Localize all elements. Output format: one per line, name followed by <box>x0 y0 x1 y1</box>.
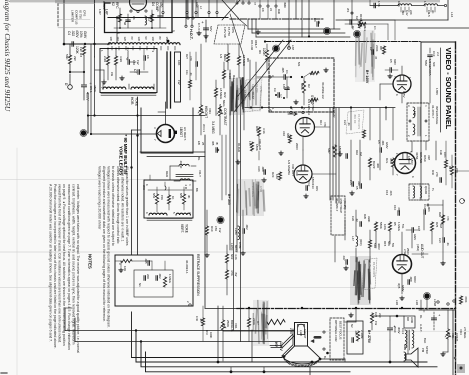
vert bundle x230-240 <box>229 70 231 250</box>
svg-text:BLK: BLK <box>423 338 427 343</box>
svg-text:L2: L2 <box>147 18 151 21</box>
IF coil group 2 <box>424 4 438 6</box>
bus y367 <box>141 342 437 367</box>
svg-text:Voltages shown were measured w: Voltages shown were measured with respec… <box>107 166 111 328</box>
svg-text:.01: .01 <box>446 242 450 246</box>
right col extra parts <box>442 200 444 260</box>
svg-text:L5K: L5K <box>214 226 218 231</box>
svg-text:K2: K2 <box>111 2 115 6</box>
svg-text:AGC: AGC <box>195 2 199 8</box>
box RD3400 <box>404 316 415 328</box>
faint fold line 2 <box>0 287 469 289</box>
res R17 L5K right edge <box>450 166 453 175</box>
smudge 1 dark <box>230 78 244 115</box>
svg-text:Production changes are incorpo: Production changes are incorporated in l… <box>53 184 57 349</box>
svg-text:10%: 10% <box>443 152 447 158</box>
svg-text:GRN: GRN <box>403 344 407 350</box>
svg-text:10%: 10% <box>79 31 83 38</box>
wire x218 drop <box>217 306 219 362</box>
wire vertical x64 <box>63 0 65 45</box>
svg-text:3K: 3K <box>187 195 191 199</box>
svg-text:250V: 250V <box>406 248 410 255</box>
long vertical x205 <box>204 135 206 308</box>
coil 2ohm <box>180 179 190 181</box>
junctions y115 <box>87 114 89 116</box>
svg-text:N54: N54 <box>152 193 156 199</box>
svg-text:.006: .006 <box>427 206 431 212</box>
svg-text:GMV: GMV <box>413 234 417 240</box>
resistor R3 120K <box>82 46 85 55</box>
hor yoke coils <box>103 87 126 89</box>
svg-text:5: 5 <box>116 32 120 34</box>
svg-text:RED: RED <box>165 171 169 177</box>
CRT neck <box>295 323 308 347</box>
svg-text:R6: R6 <box>255 188 259 192</box>
svg-text:CPS: CPS <box>83 10 87 16</box>
svg-text:2.2K: 2.2K <box>103 56 107 62</box>
svg-text:CT: CT <box>133 69 137 73</box>
svg-text:30-6024-1: 30-6024-1 <box>185 260 189 274</box>
svg-text:L8 MEG: L8 MEG <box>219 88 223 100</box>
vy cap <box>165 186 166 190</box>
left print margin line <box>16 148 18 375</box>
svg-text:2.5 MEG: 2.5 MEG <box>463 327 467 339</box>
svg-text:330: 330 <box>357 181 361 186</box>
svg-text:0.5M: 0.5M <box>238 242 242 249</box>
svg-text:10%: 10% <box>383 224 387 230</box>
parts in comp box <box>119 8 121 28</box>
hor yoke box <box>100 49 157 93</box>
svg-text:56K: 56K <box>387 241 391 246</box>
svg-text:4C56: 4C56 <box>415 152 419 160</box>
svg-text:680K: 680K <box>300 83 304 90</box>
svg-text:45V RF: 45V RF <box>353 114 357 124</box>
resistor 56K 2W <box>68 55 71 64</box>
panel bottom dash-dot border <box>237 308 456 310</box>
box around comp tube <box>105 0 173 33</box>
top right resistors <box>358 20 361 28</box>
hline y107 <box>244 107 395 109</box>
tube sync triode <box>296 118 315 137</box>
CRT wires in <box>223 330 295 332</box>
svg-text:1W: 1W <box>110 72 114 76</box>
svg-text:RETRACE SUPPRESSION: RETRACE SUPPRESSION <box>196 254 200 296</box>
svg-text:L3R: L3R <box>415 300 419 305</box>
black dot TP3 <box>324 28 329 33</box>
svg-text:50V: 50V <box>209 26 213 32</box>
svg-text:OS 140: OS 140 <box>250 40 254 51</box>
optional focus dashed box <box>330 318 344 360</box>
wire from face <box>320 358 345 360</box>
svg-text:1W: 1W <box>218 228 222 233</box>
line y28 right <box>408 27 469 29</box>
svg-text:MPO: MPO <box>234 245 238 252</box>
vertical from bus <box>116 18 118 44</box>
retrace wires <box>115 260 121 262</box>
svg-text:NOTES: NOTES <box>88 254 93 269</box>
svg-text:C40: C40 <box>195 316 199 321</box>
wire vertical x94 <box>94 0 96 57</box>
svg-text:K2: K2 <box>355 16 359 20</box>
svg-text:VR3: VR3 <box>208 108 212 114</box>
svg-text:L1JB: L1JB <box>299 330 303 336</box>
top page edge shadow <box>10 0 440 2</box>
wires contrast drop <box>221 135 223 200</box>
svg-text:150: 150 <box>132 60 136 65</box>
svg-text:3400: 3400 <box>410 317 414 323</box>
svg-text:B+ 205: B+ 205 <box>227 194 231 205</box>
junction dots mid <box>264 40 266 42</box>
svg-text:A.O.T.: A.O.T. <box>419 324 423 333</box>
SIF wires <box>401 66 403 75</box>
svg-text:C24: C24 <box>438 238 442 243</box>
strut double <box>270 334 294 348</box>
svg-text:R28: R28 <box>438 212 442 217</box>
svg-text:2.2: 2.2 <box>436 52 440 56</box>
svg-text:3.3K: 3.3K <box>262 128 266 134</box>
capacitor C4 <box>71 42 73 47</box>
svg-text:ONLY: ONLY <box>254 40 258 48</box>
svg-text:EB: EB <box>197 141 201 145</box>
svg-text:SUN/AT: SUN/AT <box>303 329 307 339</box>
vol wires <box>447 310 449 329</box>
svg-text:viewed from the front of the r: viewed from the front of the receiver ch… <box>58 184 62 343</box>
svg-text:115V RF: 115V RF <box>368 262 372 273</box>
res R19 33K <box>257 127 260 136</box>
dots y308 <box>301 307 303 309</box>
faint fold line 3 <box>0 179 145 181</box>
slanted dashed box 115V RF <box>214 25 245 44</box>
svg-text:450: 450 <box>159 2 163 8</box>
limiter dashed box <box>57 4 59 28</box>
svg-text:BEST FOCUS: BEST FOCUS <box>339 321 343 339</box>
wires w pins <box>185 0 187 25</box>
res R25 <box>430 222 433 231</box>
svg-text:VERT.: VERT. <box>180 224 184 233</box>
svg-text:QUAD: QUAD <box>424 186 428 194</box>
hline y152 <box>140 151 205 153</box>
svg-text:32-4766-?: 32-4766-? <box>431 105 435 119</box>
gnd retrace <box>120 268 122 270</box>
gnd left mid <box>103 80 105 82</box>
res 680K R2 <box>302 81 305 93</box>
wires into sync box <box>257 76 270 78</box>
svg-text:C14: C14 <box>423 204 427 210</box>
pin circles sync <box>269 76 271 78</box>
vy res 3K <box>182 194 185 204</box>
svg-text:.01: .01 <box>347 122 351 126</box>
CRT bell double edge <box>282 323 295 357</box>
svg-text:Voltages were read using a 20,: Voltages were read using a 20,000 ohms/ <box>97 166 101 229</box>
svg-text:R27: R27 <box>185 54 189 59</box>
svg-text:R35: R35 <box>363 214 367 219</box>
junction dots bus44 <box>63 43 66 46</box>
IF coil group 1 <box>398 4 412 6</box>
black dot TP4 <box>354 31 359 36</box>
tube vid out <box>294 165 312 183</box>
svg-text:R40: R40 <box>431 170 435 175</box>
svg-text:50M: 50M <box>424 60 428 66</box>
arrow flow <box>288 112 297 115</box>
svg-text:BL: BL <box>197 157 201 161</box>
svg-text:N2: N2 <box>350 324 354 328</box>
svg-text:400V: 400V <box>86 92 90 101</box>
svg-text:R17: R17 <box>448 166 452 172</box>
black dot TP1 <box>81 130 86 135</box>
svg-text:15,750: 15,750 <box>255 84 259 93</box>
svg-text:3C: 3C <box>431 10 435 13</box>
wire y115 long <box>88 115 205 117</box>
tube AUD OUT <box>393 255 412 274</box>
res RT 180K <box>333 145 336 157</box>
dash-dot border 2 <box>265 41 420 43</box>
svg-text:15,750 CPS: 15,750 CPS <box>357 114 361 129</box>
svg-text:90V: 90V <box>315 186 319 191</box>
svg-text:330K: 330K <box>367 216 371 222</box>
retrace box <box>115 255 193 306</box>
svg-text:L5: L5 <box>269 8 273 11</box>
svg-text:.022: .022 <box>71 30 75 36</box>
svg-text:.01: .01 <box>189 72 193 76</box>
svg-text:140: 140 <box>413 111 417 116</box>
gnd near HOT <box>198 31 200 33</box>
tube 1B3GT <box>157 125 175 143</box>
svg-text:VIDEO - SOUND PANEL: VIDEO - SOUND PANEL <box>444 48 453 130</box>
svg-text:C26: C26 <box>351 216 355 221</box>
flyback winding row <box>108 43 180 45</box>
svg-text:580K: 580K <box>379 222 383 229</box>
electrolytic C7-3 <box>205 20 207 42</box>
svg-text:400V: 400V <box>75 30 79 38</box>
main bus y17 <box>108 17 228 19</box>
tube pins <box>130 10 132 12</box>
svg-text:Alignment procedure and wavefo: Alignment procedure and waveform data ar… <box>102 166 106 322</box>
svg-text:C4: C4 <box>67 31 71 35</box>
wire x88 col <box>87 100 89 133</box>
svg-text:270: 270 <box>435 172 439 177</box>
AOT coils <box>405 330 407 348</box>
svg-text:R25: R25 <box>435 222 439 228</box>
misc sync box extras <box>275 94 277 96</box>
svg-text:47: 47 <box>374 56 378 60</box>
svg-text:100K: 100K <box>209 332 213 338</box>
svg-text:4.5M TRAP: 4.5M TRAP <box>339 198 343 213</box>
svg-text:RD: RD <box>406 317 410 321</box>
electrolytic 20UF <box>388 327 393 329</box>
svg-text:115V RF: 115V RF <box>251 84 255 95</box>
vy coils <box>149 213 167 215</box>
svg-text:HOR.: HOR. <box>130 97 134 105</box>
svg-text:C10: C10 <box>393 205 397 211</box>
svg-text:VID OUT: VID OUT <box>291 164 295 176</box>
nested corners <box>248 28 340 30</box>
svg-text:IN60: IN60 <box>283 2 287 8</box>
svg-text:C3-3: C3-3 <box>401 328 405 335</box>
misc agc column <box>187 0 189 17</box>
svg-text:H.O.T.: H.O.T. <box>189 29 193 40</box>
svg-text:1W: 1W <box>136 60 140 65</box>
svg-text:47K: 47K <box>323 122 327 127</box>
svg-text:C17: C17 <box>417 226 421 231</box>
svg-text:RFC: RFC <box>359 14 363 20</box>
svg-text:SPKR: SPKR <box>425 346 429 354</box>
4.5M trap box <box>331 196 345 235</box>
svg-text:VOL/GR: VOL/GR <box>258 139 262 150</box>
svg-text:R14: R14 <box>319 120 323 125</box>
svg-text:120: 120 <box>123 37 127 42</box>
vert bundle x330 <box>329 108 331 200</box>
svg-text:2.2 MEG: 2.2 MEG <box>251 186 255 197</box>
svg-text:B+ 275V: B+ 275V <box>367 330 371 344</box>
svg-text:C11: C11 <box>185 70 189 75</box>
svg-text:22K: 22K <box>409 10 413 15</box>
vert yoke box <box>144 180 193 218</box>
svg-text:1M: 1M <box>439 224 443 229</box>
quad coil box <box>409 184 429 200</box>
svg-text:C2: C2 <box>369 47 373 51</box>
res RB 220K <box>382 46 385 54</box>
svg-text:GMV: GMV <box>401 285 405 292</box>
svg-text:R2L: R2L <box>385 158 389 164</box>
svg-text:L47: L47 <box>351 236 355 241</box>
svg-text:C22: C22 <box>374 312 378 318</box>
svg-text:130: 130 <box>137 37 141 42</box>
bus y362 <box>136 331 427 363</box>
svg-text:4.5K: 4.5K <box>230 270 234 276</box>
IF strip wire <box>370 5 398 7</box>
svg-text:.001: .001 <box>381 140 385 146</box>
svg-text:.006: .006 <box>389 190 393 196</box>
svg-text:6MV: 6MV <box>393 59 397 65</box>
svg-text:unless otherwise noted. Arrow: unless otherwise noted. Arrow through co… <box>116 166 120 244</box>
svg-text:10K: 10K <box>123 266 127 271</box>
svg-text:VO-T: VO-T <box>198 170 202 177</box>
col wires <box>200 44 202 105</box>
ghost parallelogram 2 <box>362 258 377 290</box>
svg-text:CONT.: CONT. <box>455 333 459 342</box>
svg-text:(41.25): (41.25) <box>343 200 347 209</box>
svg-text:300V: 300V <box>397 327 401 334</box>
cap .005 C1 <box>283 75 285 80</box>
svg-text:OPTIONAL FOR: OPTIONAL FOR <box>334 320 338 341</box>
focus pins <box>323 331 325 333</box>
svg-text:400V: 400V <box>377 243 381 250</box>
svg-text:(000): (000) <box>359 239 363 246</box>
svg-text:1W: 1W <box>374 321 378 326</box>
svg-text:R8: R8 <box>246 58 250 62</box>
svg-text:All capacitor values greater t: All capacitor values greater than 1 are … <box>125 166 129 246</box>
svg-text:R10: R10 <box>210 226 214 232</box>
wire x231 drop <box>230 367 232 372</box>
dash-dot border 1 <box>230 18 324 20</box>
box around 1B3GT <box>141 108 193 153</box>
svg-text:0.5M: 0.5M <box>259 186 263 193</box>
svg-text:DISC: DISC <box>423 155 427 162</box>
top right wires <box>351 0 353 28</box>
hy cap CT <box>137 70 139 75</box>
svg-text:HEIGHT: HEIGHT <box>204 106 208 118</box>
wire x91 low <box>90 44 92 134</box>
svg-text:MEG: MEG <box>222 100 226 107</box>
panel border left <box>420 42 422 103</box>
black dot TP2 <box>273 46 278 51</box>
svg-text:SIF: SIF <box>432 62 436 67</box>
bright wires <box>222 306 224 320</box>
svg-text:1.40: 1.40 <box>423 1 427 7</box>
svg-text:175: 175 <box>248 141 252 146</box>
svg-text:4.7: 4.7 <box>279 94 283 98</box>
diag wire <box>230 14 244 57</box>
svg-text:9.88: 9.88 <box>397 1 401 7</box>
svg-text:C13: C13 <box>432 51 436 57</box>
hy resistor 2.2K <box>106 56 109 65</box>
svg-text:L6P: L6P <box>291 45 295 50</box>
smudge top right light <box>355 30 375 82</box>
panel border top <box>421 41 455 43</box>
sound col wires <box>420 103 422 200</box>
ghost parallelogram 1 <box>244 78 262 112</box>
svg-text:L15M: L15M <box>433 299 437 307</box>
svg-text:contrast, brightness, width, h: contrast, brightness, width, height, ver… <box>71 184 75 345</box>
svg-text:CM-5: CM-5 <box>427 10 431 17</box>
svg-text:measurement conditions given o: measurement conditions given on page 7. … <box>67 184 71 350</box>
black dot small <box>167 40 170 43</box>
flyback core bars <box>166 52 168 108</box>
svg-text:L1PO: L1PO <box>230 243 234 251</box>
electrolytic C5-1 <box>83 72 85 84</box>
gnd b140 <box>389 74 391 76</box>
svg-text:C3: C3 <box>273 88 277 92</box>
svg-text:220K: 220K <box>375 45 379 52</box>
svg-text:SYNC: SYNC <box>311 103 315 112</box>
svg-text:RL: RL <box>419 315 423 319</box>
svg-text:C30: C30 <box>439 150 443 155</box>
svg-text:30-6569-1/2: 30-6569-1/2 <box>321 82 325 99</box>
svg-text:30-4689-7: 30-4689-7 <box>335 198 339 212</box>
verticals x65 x75 <box>64 308 66 331</box>
hy resistor 3.9K <box>114 56 117 65</box>
dot right edge <box>454 357 456 359</box>
svg-text:100: 100 <box>109 37 113 42</box>
svg-text:YOKE: YOKE <box>185 224 189 233</box>
svg-text:B+ 140V: B+ 140V <box>365 70 369 84</box>
svg-text:R22: R22 <box>223 92 227 98</box>
svg-text:3.4 MEG: 3.4 MEG <box>211 121 215 134</box>
svg-text:on page 9. ● Focus voltage op: on page 9. ● Focus voltage optional for … <box>62 184 66 346</box>
svg-text:volt meter. Voltages were tak: volt meter. Voltages were taken with no … <box>76 184 80 353</box>
faint fold line 4 <box>298 330 469 332</box>
svg-text:.002: .002 <box>245 224 249 230</box>
res 220 1W <box>370 313 373 323</box>
getter pill <box>314 336 322 339</box>
svg-text:.002: .002 <box>158 273 162 279</box>
svg-text:D4: D4 <box>151 2 155 6</box>
svg-text:5%: 5% <box>391 243 395 248</box>
main bus y44 <box>64 43 110 45</box>
hline y156 <box>147 156 205 158</box>
svg-text:S8P: S8P <box>327 148 331 154</box>
junction dots buses <box>135 329 137 331</box>
res 470K edge <box>459 296 462 304</box>
caps video low <box>351 182 353 187</box>
svg-text:PM: PM <box>421 348 425 353</box>
black dot TP5 <box>218 217 224 223</box>
svg-text:54K: 54K <box>373 243 377 248</box>
svg-text:R30: R30 <box>277 9 281 14</box>
flyback taps <box>111 46 113 50</box>
svg-text:5-18: 5-18 <box>218 104 222 110</box>
svg-text:.047: .047 <box>342 255 346 261</box>
